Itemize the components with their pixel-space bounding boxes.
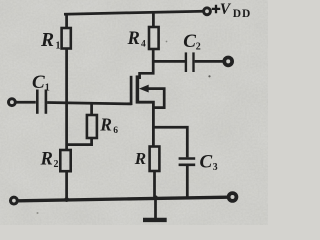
wire drain junction to C2 <box>153 60 185 63</box>
wire R bottom lead <box>153 171 156 200</box>
svg-text:4: 4 <box>141 40 146 50</box>
node ground-stem/rail junction <box>154 196 158 200</box>
node R2/ground-rail junction <box>65 198 69 202</box>
svg-text:V: V <box>220 1 232 18</box>
wire source junction to C3 branch <box>153 127 187 157</box>
capacitor C3 <box>179 157 196 159</box>
terminal output <box>224 58 232 66</box>
svg-text:C: C <box>200 151 213 172</box>
wire C3 bottom lead <box>186 166 189 198</box>
paper background <box>0 0 268 225</box>
wire R1 bottom to R2 (crosses gate wire, no connection) <box>65 49 68 151</box>
capacitor C1 <box>36 90 39 114</box>
transistor Q1 channel bar <box>136 75 140 103</box>
wire R6 bottom L to divider node <box>67 138 92 145</box>
wire Q1 source lead <box>139 102 154 146</box>
transistor Q1 bulk arrow (N-channel) <box>140 85 149 92</box>
svg-text:C: C <box>32 72 45 93</box>
label +VDD <box>212 5 220 14</box>
svg-text:2: 2 <box>54 159 59 170</box>
wire R4 top lead <box>152 11 155 27</box>
svg-text:1: 1 <box>45 83 50 94</box>
terminal bottom-right <box>229 193 237 201</box>
resistor R6 <box>87 115 97 138</box>
svg-text:R: R <box>127 29 140 49</box>
svg-text:1: 1 <box>56 41 61 52</box>
resistor R2 <box>60 150 70 171</box>
wire R6 top stub <box>90 103 93 115</box>
wire R1 top lead <box>65 14 68 28</box>
terminal bottom-left <box>11 197 18 204</box>
svg-text:R: R <box>134 149 146 168</box>
svg-text:2: 2 <box>196 42 201 53</box>
resistor R1 <box>62 28 71 49</box>
wire Q1 bulk lead looped to source <box>148 89 165 108</box>
wire Q1 drain lead <box>140 49 154 79</box>
resistor R4 <box>149 27 159 49</box>
svg-text:3: 3 <box>213 162 218 173</box>
svg-text:R: R <box>99 115 112 135</box>
capacitor C2 <box>185 52 187 72</box>
wire R2 bottom lead <box>65 171 68 201</box>
svg-text:R: R <box>40 30 54 51</box>
terminal input <box>9 99 16 106</box>
resistor R <box>150 147 160 172</box>
terminal +VDD <box>204 8 211 15</box>
wire C2 to output <box>195 60 223 63</box>
transistor Q1 (MOSFET) gate bar <box>130 76 133 105</box>
svg-text:6: 6 <box>113 126 118 136</box>
svg-text:R: R <box>40 150 53 170</box>
scan speck <box>208 75 210 77</box>
wire bottom rail <box>19 197 229 201</box>
svg-text:C: C <box>183 31 196 52</box>
wire input to C1 <box>16 101 36 104</box>
svg-text:DD: DD <box>233 8 251 20</box>
wire top supply rail <box>64 11 203 14</box>
wire C1 to gate <box>47 103 132 104</box>
ground <box>154 198 157 218</box>
